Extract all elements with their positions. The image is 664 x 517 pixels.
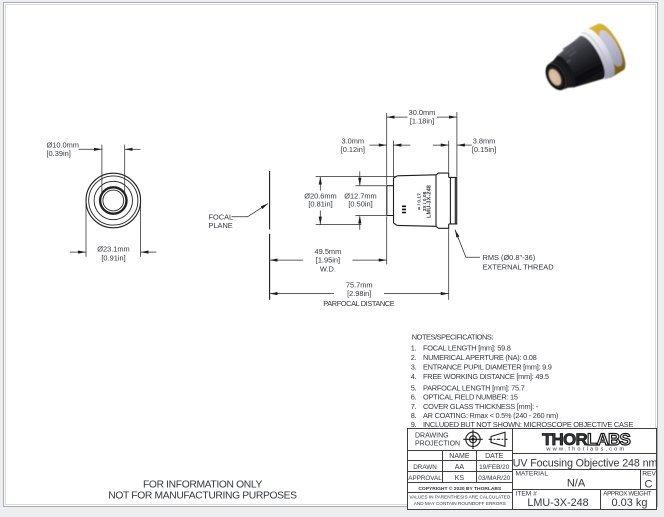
svg-text:0.03 kg: 0.03 kg: [611, 497, 647, 509]
svg-text:FOCAL LENGTH [mm]: 59.8: FOCAL LENGTH [mm]: 59.8: [423, 344, 511, 353]
svg-text:MATERIAL: MATERIAL: [516, 470, 549, 477]
svg-text:EXTERNAL THREAD: EXTERNAL THREAD: [483, 262, 554, 271]
svg-text:9.: 9.: [411, 420, 417, 429]
dia 20.6 extension lines: [316, 176, 397, 178]
svg-text:3X / 0.08: 3X / 0.08: [422, 191, 428, 211]
svg-text:APPROVAL: APPROVAL: [408, 475, 442, 482]
svg-text:75.7mm: 75.7mm: [346, 280, 373, 289]
photo lens: [546, 67, 563, 87]
front lens housing: [387, 186, 394, 216]
focal plane line: [269, 171, 271, 230]
photo front step ring: [553, 53, 580, 89]
extension line B x=393.4: [392, 141, 394, 177]
svg-text:03/MAR/20: 03/MAR/20: [478, 475, 510, 482]
photo front face ring: [543, 62, 568, 92]
RMS thread relief line: [449, 177, 451, 224]
svg-text:1.: 1.: [411, 344, 417, 353]
extension line D x=456.9: [456, 112, 458, 177]
front view outer circle: [86, 173, 141, 228]
title block left horizontal lines: [408, 451, 513, 493]
main body outline: [397, 175, 436, 227]
svg-text:[0.15in]: [0.15in]: [472, 145, 496, 154]
dimension 30.0mm: [387, 116, 408, 118]
photo front housing: [548, 57, 575, 91]
photo front bevel: [545, 65, 565, 89]
svg-text:AND MAY CONTAIN ROUNDOFF ERROR: AND MAY CONTAIN ROUNDOFF ERRORS: [414, 501, 506, 506]
svg-text:KS: KS: [455, 475, 465, 482]
svg-text:[1.95in]: [1.95in]: [316, 256, 340, 265]
dia 12.7 extension lines: [355, 185, 385, 187]
RMS rear edge line: [454, 177, 456, 224]
photo front face: [542, 60, 570, 93]
extension line A x=386.7: [386, 113, 388, 185]
svg-text:[1.18in]: [1.18in]: [410, 117, 434, 126]
extension lines dia 23.1: [85, 201, 87, 257]
dimension 3.0mm arrows: [370, 144, 387, 146]
REV cell divider: [640, 470, 642, 490]
NOTES/SPECIFICATIONS block: [411, 332, 634, 429]
svg-text:C: C: [645, 479, 653, 491]
svg-text:FOR INFORMATION ONLY: FOR INFORMATION ONLY: [143, 480, 263, 491]
svg-text:5.: 5.: [411, 383, 417, 392]
dimension 49.5mm WD: [270, 259, 303, 261]
item/weight divider: [600, 490, 602, 510]
flange outline: [436, 173, 449, 228]
TITLE BLOCK: [408, 429, 657, 510]
photo engraving hints: [559, 41, 583, 63]
svg-text:REV: REV: [642, 470, 656, 477]
extension lines dia 10.0: [101, 145, 103, 194]
svg-text:3.8mm: 3.8mm: [473, 136, 496, 145]
svg-text:NUMERICAL APERTURE (NA): 0.08: NUMERICAL APERTURE (NA): 0.08: [423, 353, 537, 362]
svg-text:OPTICAL FIELD NUMBER: 15: OPTICAL FIELD NUMBER: 15: [423, 393, 518, 402]
svg-text:8.: 8.: [411, 411, 417, 420]
front view chamfer circle: [89, 176, 138, 225]
svg-text:FREE WORKING DISTANCE [mm]: 49: FREE WORKING DISTANCE [mm]: 49.5: [423, 372, 549, 381]
svg-text:LMU-3X-248: LMU-3X-248: [527, 497, 588, 509]
photo cone top highlight: [554, 37, 583, 57]
front view bore circle: [100, 187, 126, 213]
svg-text:[0.39in]: [0.39in]: [47, 149, 71, 158]
title block frame: [408, 429, 657, 510]
svg-text:Ø23.1mm: Ø23.1mm: [97, 245, 129, 254]
title block left vertical dividers: [443, 451, 477, 483]
svg-text:∞ / 0.17: ∞ / 0.17: [416, 193, 422, 210]
photo silver band seam: [582, 29, 614, 79]
projection cone symbol: [489, 432, 508, 446]
dimension arrows dia 23.1: [70, 251, 86, 253]
svg-text:AR COATING: Rmax < 0.5% (240 -: AR COATING: Rmax < 0.5% (240 - 260 nm): [423, 411, 558, 420]
photo black cone body: [553, 32, 610, 93]
svg-text:www.thorlabs.com: www.thorlabs.com: [545, 447, 626, 453]
svg-text:PARFOCAL DISTANCE: PARFOCAL DISTANCE: [323, 299, 395, 308]
flange front face: [435, 175, 437, 227]
body face chamfers: [394, 176, 398, 226]
svg-text:AA: AA: [455, 464, 465, 471]
svg-text:4.: 4.: [411, 372, 417, 381]
svg-text:PLANE: PLANE: [209, 221, 233, 230]
svg-text:7.: 7.: [411, 402, 417, 411]
svg-text:[0.81in]: [0.81in]: [308, 200, 332, 209]
dimension arrows dia 10.0: [79, 148, 102, 150]
svg-text:6.: 6.: [411, 393, 417, 402]
photo silver wide band: [578, 25, 620, 81]
photo gold ring: [583, 19, 631, 79]
svg-text:W.D.: W.D.: [320, 264, 336, 273]
svg-text:DRAWN: DRAWN: [413, 464, 437, 471]
svg-text:ENTRANCE PUPIL DIAMETER [mm]:: ENTRANCE PUPIL DIAMETER [mm]: 9.9: [423, 363, 552, 372]
svg-text:DATE: DATE: [485, 453, 503, 460]
svg-text:UV Focusing Objective 248 nm: UV Focusing Objective 248 nm: [513, 457, 658, 469]
body front face: [393, 178, 395, 223]
extension line C x=448.7: [448, 141, 450, 172]
svg-text:NOTES/SPECIFICATIONS:: NOTES/SPECIFICATIONS:: [412, 332, 494, 341]
photo back silver cap: [595, 27, 627, 70]
svg-text:INCLUDED BUT NOT SHOWN: MICROS: INCLUDED BUT NOT SHOWN: MICROSCOPE OBJEC…: [423, 420, 633, 429]
svg-text:[2.98in]: [2.98in]: [347, 289, 371, 298]
svg-text:[0.12in]: [0.12in]: [341, 145, 365, 154]
svg-text:[0.50in]: [0.50in]: [348, 200, 372, 209]
svg-text:PROJECTION: PROJECTION: [415, 441, 460, 448]
svg-text:COPYRIGHT © 2020 BY THORLABS: COPYRIGHT © 2020 BY THORLABS: [418, 485, 502, 492]
svg-text:19/FEB/20: 19/FEB/20: [479, 464, 510, 471]
svg-text:NAME: NAME: [449, 453, 470, 460]
RMS thread section: [449, 177, 457, 224]
svg-text:N/A: N/A: [567, 477, 586, 489]
svg-text:30.0mm: 30.0mm: [409, 108, 436, 117]
RMS leader: [455, 230, 480, 258]
svg-text:NOT FOR MANUFACTURING PURPOSES: NOT FOR MANUFACTURING PURPOSES: [108, 490, 297, 501]
svg-text:DRAWING: DRAWING: [415, 432, 449, 439]
dimension 3.8mm arrows: [433, 144, 449, 146]
svg-text:2.: 2.: [411, 353, 417, 362]
dimension 75.7mm parfocal: [270, 293, 334, 295]
title block right horizontal lines: [513, 454, 657, 490]
body serial marks: [402, 206, 406, 214]
svg-text:RMS (Ø0.8"-36): RMS (Ø0.8"-36): [483, 253, 536, 262]
leader focal plane: [232, 203, 269, 216]
front view step circle: [94, 181, 132, 219]
svg-text:3.: 3.: [411, 363, 417, 372]
dia 20.6 dimension arrows: [319, 177, 321, 191]
title block left/right divider: [512, 429, 514, 510]
front view lens circle: [103, 190, 124, 211]
svg-text:VALUES IN PARENTHESIS ARE CALC: VALUES IN PARENTHESIS ARE CALCULATED: [409, 495, 510, 500]
svg-text:PARFOCAL LENGTH [mm]: 75.7: PARFOCAL LENGTH [mm]: 75.7: [423, 383, 525, 392]
svg-text:[0.91in]: [0.91in]: [101, 253, 125, 262]
PHOTO: objective 3D render: [536, 19, 632, 105]
dia 12.7 dimension arrows: [359, 171, 361, 185]
svg-text:3.0mm: 3.0mm: [342, 136, 365, 145]
svg-text:49.5mm: 49.5mm: [315, 247, 342, 256]
svg-text:COVER GLASS THICKNESS [mm]: -: COVER GLASS THICKNESS [mm]: -: [423, 402, 539, 411]
projection target symbol: [463, 430, 482, 449]
